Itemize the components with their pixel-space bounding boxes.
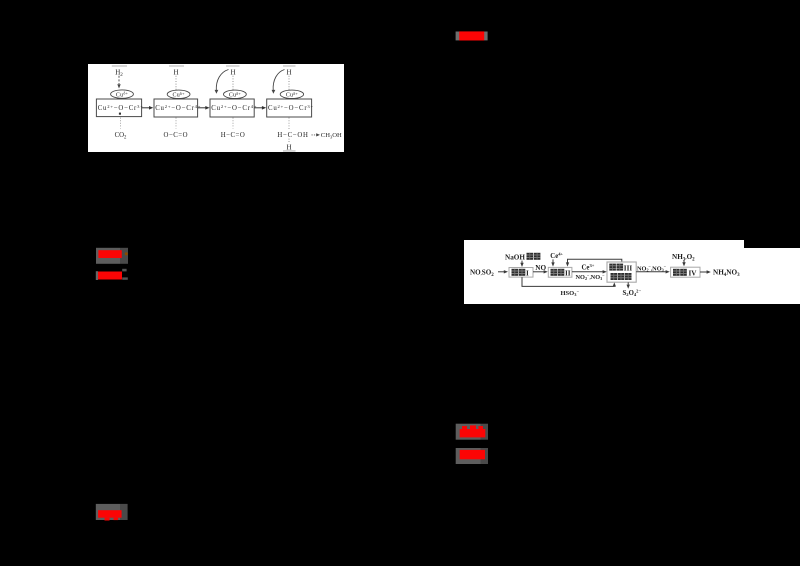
recycle line from device III to device II: [568, 259, 622, 263]
unit1 box Cu-O-Cr: [96, 99, 141, 117]
figure 1: CO2 hydrogenation mechanism image background: [88, 64, 344, 152]
unit2 box Cu-O-Cr: [154, 99, 198, 117]
unit2 Cu ellipse: [167, 90, 190, 98]
arrow box2 to box3: [198, 107, 206, 109]
svg-text:NH4NO3: NH4NO3: [713, 269, 740, 278]
answer tag D (right, selected): [456, 424, 488, 440]
unit4 box Cu-O-Cr: [267, 99, 312, 117]
unit3 dotted line below: [232, 118, 234, 129]
svg-text:CH3OH: CH3OH: [321, 132, 342, 140]
figure 2: NO/SO2 absorption-electrolysis flow image background: [464, 240, 800, 304]
svg-text:O−C=O: O−C=O: [164, 132, 189, 139]
answer tag A (top right): [456, 31, 488, 40]
unit4 Cu ellipse: [280, 90, 303, 98]
arrow NH3 into device IV: [683, 260, 685, 262]
svg-text:III: III: [624, 264, 633, 272]
device II box: [548, 267, 572, 277]
answer tag B (left, selected): [96, 248, 128, 264]
arrow NaOH into device I: [521, 261, 523, 264]
svg-text:H: H: [230, 68, 235, 76]
unit1 dotted line to CO2: [120, 118, 122, 129]
arrow Ce4+ into device II: [552, 259, 554, 263]
answer tag E (right, selected): [456, 448, 488, 464]
device IV box: [671, 267, 700, 277]
svg-text:Cu2+−O−Cr4+: Cu2+−O−Cr4+: [155, 104, 201, 112]
svg-text:H−C=O: H−C=O: [221, 132, 246, 139]
svg-text:NaOH: NaOH: [505, 254, 525, 262]
unit4 dotted line to ellipse: [288, 76, 290, 90]
unit2 dotted line below: [175, 118, 177, 129]
unit3 gray smudge: [226, 65, 240, 66]
unit4 line C to H below: [288, 139, 290, 144]
svg-text:IV: IV: [689, 270, 698, 278]
device III electrolysis box: [607, 262, 636, 282]
unit1 Cu ellipse: [111, 90, 134, 98]
arrow device II to III: [572, 271, 603, 273]
svg-text:NO,SO2: NO,SO2: [470, 269, 494, 278]
unit4 dashed arrow to CH3OH: [312, 134, 317, 136]
unit3 dotted line to ellipse: [232, 76, 234, 90]
unit4 gray smudge: [283, 65, 296, 66]
svg-text:H−C−OH: H−C−OH: [277, 132, 308, 139]
unit2 dotted line to ellipse: [175, 76, 177, 90]
answer tag C (left): [96, 269, 128, 280]
arrow box3 to box4: [254, 107, 262, 109]
unit2 gray smudge: [169, 65, 184, 66]
unit1 dot under O: [119, 113, 121, 115]
svg-text:Cu2+−O−Cr3+: Cu2+−O−Cr3+: [98, 104, 144, 112]
svg-text:Cu2+−O−Cr3+: Cu2+−O−Cr3+: [268, 104, 314, 112]
svg-text:H: H: [173, 68, 178, 76]
unit3 Cu ellipse: [224, 90, 247, 98]
answer tag F (bottom left, selected): [96, 504, 128, 521]
HSO3- return path: [522, 277, 614, 286]
device I box: [509, 268, 533, 278]
arrow device I to II: [533, 271, 544, 273]
arrow feed to device I: [498, 271, 504, 273]
svg-text:H: H: [286, 68, 291, 76]
arrow S2O4 out: [627, 282, 629, 285]
svg-text:Cu2+−O−Cr4+: Cu2+−O−Cr4+: [211, 104, 257, 112]
arrow device IV to product: [700, 271, 707, 273]
unit4 curved arrow: [273, 70, 284, 91]
unit3 box Cu-O-Cr: [210, 99, 254, 117]
unit1 gray smudge: [112, 65, 127, 66]
unit1 dashed arrow down: [118, 76, 120, 84]
arrow box1 to box2: [142, 107, 150, 109]
svg-text:II: II: [565, 270, 571, 278]
unit4 bottom gray smudge: [283, 150, 296, 152]
arrow device III to IV: [636, 271, 666, 273]
svg-text:I: I: [526, 270, 529, 278]
unit4 dotted line below: [288, 118, 290, 131]
unit3 curved arrow: [216, 70, 228, 91]
